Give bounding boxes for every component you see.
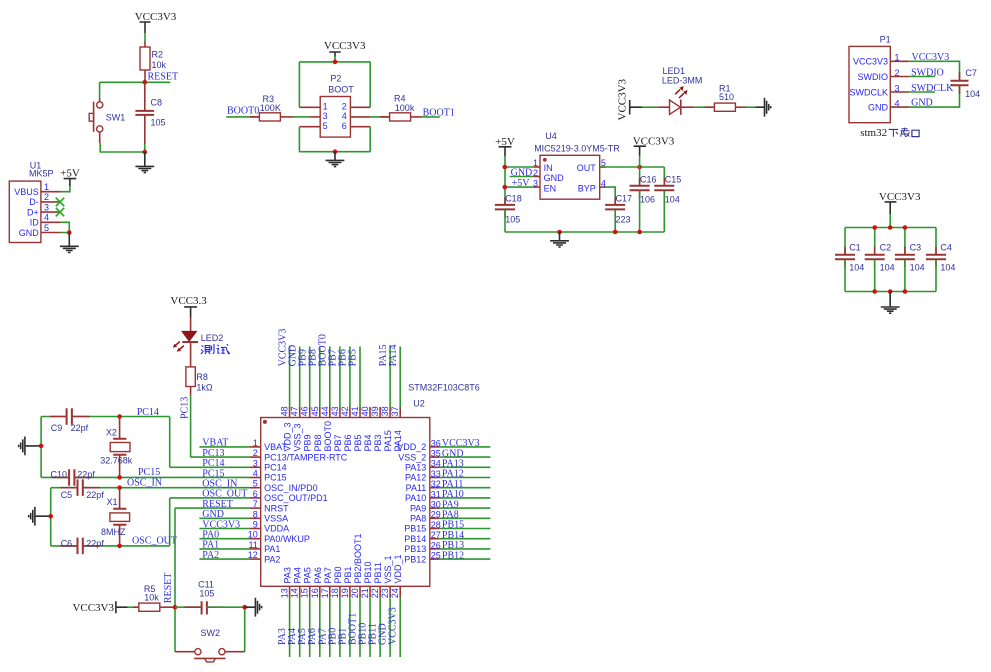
pin 4 ID xyxy=(30,213,61,228)
pin 8 VSSA (left) xyxy=(250,509,288,523)
svg-text:PA14: PA14 xyxy=(393,430,403,451)
svg-text:105: 105 xyxy=(505,214,520,224)
svg-text:LED-3MM: LED-3MM xyxy=(662,75,703,85)
wire PA0 stub xyxy=(199,538,250,540)
wire PB14 stub right xyxy=(440,538,491,540)
capacitor C1 xyxy=(835,243,864,273)
svg-text:106: 106 xyxy=(640,195,655,205)
svg-text:42: 42 xyxy=(340,406,350,416)
svg-text:C8: C8 xyxy=(151,98,163,108)
svg-text:VCC3V3: VCC3V3 xyxy=(616,78,628,120)
wire PA6 stub bottom xyxy=(319,597,321,657)
ground (boot header) xyxy=(326,152,345,167)
svg-text:26: 26 xyxy=(431,540,441,550)
pin 3 D+ xyxy=(27,202,60,217)
wire VCC3V3 stub top xyxy=(289,347,291,408)
wire VCC3V3 to R5 xyxy=(128,606,139,608)
svg-text:VCC3V3: VCC3V3 xyxy=(324,40,366,52)
junction IN xyxy=(503,165,508,170)
junction bottom rail C3 xyxy=(903,289,908,294)
svg-text:1: 1 xyxy=(533,158,538,168)
pin 30 PA9 (right) xyxy=(410,500,441,514)
pin 40 PB4 (top) xyxy=(360,406,373,451)
svg-text:C16: C16 xyxy=(640,175,657,185)
svg-text:9: 9 xyxy=(253,520,258,530)
svg-text:3: 3 xyxy=(533,178,538,188)
svg-text:PB5: PB5 xyxy=(353,434,363,451)
power VCC3V3 (boot header) xyxy=(324,40,366,57)
svg-text:R2: R2 xyxy=(152,50,164,60)
svg-text:PB9: PB9 xyxy=(303,434,313,451)
svg-text:31: 31 xyxy=(431,489,441,499)
header P2 BOOT xyxy=(320,74,354,138)
power VCC3V3 (decoupling bank) xyxy=(879,191,921,214)
svg-text:100K: 100K xyxy=(260,103,281,113)
svg-text:P2: P2 xyxy=(330,74,341,84)
wire GND stub top xyxy=(299,347,301,408)
svg-text:BOOT1: BOOT1 xyxy=(423,108,455,119)
svg-text:C15: C15 xyxy=(665,175,682,185)
svg-text:105: 105 xyxy=(151,118,166,128)
pin 1 VBUS xyxy=(14,182,60,197)
junction P2 bottom xyxy=(333,149,338,154)
pin 36 VDD_2 (right) xyxy=(397,438,441,452)
svg-text:PB14: PB14 xyxy=(404,534,426,544)
crystal X2 32.768k xyxy=(100,417,133,478)
svg-text:5: 5 xyxy=(44,223,49,233)
svg-text:VDDA: VDDA xyxy=(264,524,289,534)
regulator U4 MIC5219-3.0YM5-TR xyxy=(534,131,620,199)
pin 4 PC15 (left) xyxy=(250,469,287,483)
resistor R3 xyxy=(250,94,294,121)
wire VCC3V3 to R2 xyxy=(144,33,146,41)
svg-text:STM32F103C8T6: STM32F103C8T6 xyxy=(408,383,480,393)
wire VCC3V3 to cap bank top rail xyxy=(845,214,936,254)
svg-text:6: 6 xyxy=(253,489,258,499)
wire P1 pin4 to C7 xyxy=(909,85,959,107)
wire P1 pin1 to C7 xyxy=(909,61,959,80)
svg-text:VDD_1: VDD_1 xyxy=(393,554,403,583)
svg-text:1: 1 xyxy=(895,53,900,63)
svg-text:PB3: PB3 xyxy=(373,434,383,451)
wire PB12 stub right xyxy=(440,558,491,560)
pin 26 PB13 (right) xyxy=(404,540,441,554)
svg-text:D-: D- xyxy=(29,197,39,207)
svg-text:39: 39 xyxy=(370,406,380,416)
svg-text:BOOT: BOOT xyxy=(328,85,354,95)
svg-text:3: 3 xyxy=(895,83,900,93)
svg-text:BYP: BYP xyxy=(578,183,596,193)
label test (Chinese) xyxy=(201,344,230,354)
svg-text:C10: C10 xyxy=(51,469,68,479)
wire PB15 stub right xyxy=(440,528,491,530)
svg-text:SW1: SW1 xyxy=(106,113,126,123)
pin 29 PA8 (right) xyxy=(410,510,441,524)
svg-text:VSS_2: VSS_2 xyxy=(398,452,426,462)
svg-text:4: 4 xyxy=(44,213,49,223)
ground (regulator) xyxy=(550,232,569,247)
svg-text:PB6: PB6 xyxy=(343,434,353,451)
pin 33 PA12 (right) xyxy=(405,469,441,483)
junction top rail C3 xyxy=(903,225,908,230)
capacitor C17 xyxy=(605,194,632,232)
svg-text:PB8: PB8 xyxy=(313,434,323,451)
svg-text:X1: X1 xyxy=(107,497,118,507)
svg-text:PB4: PB4 xyxy=(363,434,373,451)
svg-text:RESET: RESET xyxy=(148,72,179,83)
junction X1 bottom xyxy=(117,544,122,549)
junction top rail C2 xyxy=(872,225,877,230)
pin 28 PB15 (right) xyxy=(404,520,441,534)
pin 5 GND xyxy=(19,223,61,238)
capacitor C15 xyxy=(654,175,681,233)
pin 1 xyxy=(299,101,327,111)
wire PA13 stub right xyxy=(440,466,491,468)
junction RESET/R5/C11 xyxy=(173,605,178,610)
wire GND stub xyxy=(199,517,250,519)
capacitor C6 xyxy=(60,538,104,555)
svg-text:35: 35 xyxy=(431,449,441,459)
wire P2 pin4 to R4 xyxy=(370,116,389,118)
pin 21 PB10 (bottom) xyxy=(360,561,373,598)
junction X2 ground tap xyxy=(39,444,44,449)
resistor R1 xyxy=(705,83,746,111)
wire R8 to MCU PC13 xyxy=(191,396,250,457)
pin 4 xyxy=(342,111,370,121)
wire PB5 stub top xyxy=(359,347,361,408)
wire R4 to BOOT1 xyxy=(422,116,440,118)
pin 6 xyxy=(342,121,370,131)
svg-text:4: 4 xyxy=(601,178,606,188)
capacitor C5 xyxy=(60,479,104,500)
wire VCC3V3 stem to OUT rail xyxy=(639,156,641,186)
svg-text:IN: IN xyxy=(544,163,553,173)
svg-text:PB13: PB13 xyxy=(404,544,426,554)
svg-text:SW2: SW2 xyxy=(201,628,221,638)
capacitor C7 xyxy=(951,68,981,99)
svg-text:VCC3V3: VCC3V3 xyxy=(72,602,114,614)
wire RESET to MCU xyxy=(175,507,250,509)
wire PA8 stub right xyxy=(440,517,491,519)
wire PA4 stub bottom xyxy=(299,597,301,657)
svg-text:BOOT0: BOOT0 xyxy=(227,106,259,117)
svg-text:4: 4 xyxy=(253,469,258,479)
svg-text:X2: X2 xyxy=(106,428,117,438)
svg-text:PB15: PB15 xyxy=(404,524,426,534)
svg-text:10k: 10k xyxy=(152,60,167,70)
connector U1 MK5P (USB) xyxy=(9,160,53,242)
svg-text:VCC3V3: VCC3V3 xyxy=(853,57,888,67)
svg-text:41: 41 xyxy=(350,406,360,416)
pin 23 VSS_1 (bottom) xyxy=(380,555,393,598)
svg-text:19: 19 xyxy=(340,588,350,598)
svg-text:5: 5 xyxy=(253,479,258,489)
wire PC15 net (bottom of X2) xyxy=(41,476,250,478)
svg-text:stm32: stm32 xyxy=(860,127,887,139)
svg-text:C3: C3 xyxy=(910,243,922,253)
svg-text:PA9: PA9 xyxy=(410,503,426,513)
svg-text:PA7: PA7 xyxy=(323,567,333,583)
wire GND stub right xyxy=(440,456,491,458)
capacitor C9 xyxy=(50,408,90,433)
wire BOOT0 to R3 xyxy=(226,116,259,118)
svg-text:1: 1 xyxy=(44,182,49,192)
svg-text:38: 38 xyxy=(380,406,390,416)
svg-text:15: 15 xyxy=(300,588,310,598)
svg-text:45: 45 xyxy=(310,406,320,416)
svg-text:104: 104 xyxy=(849,262,864,272)
wire PB1 stub bottom xyxy=(349,597,351,657)
pin 2 SWDIO xyxy=(858,68,910,82)
resistor R5 xyxy=(133,584,175,612)
wire VCC3V3 stub bottom xyxy=(399,597,401,657)
pin 4 GND xyxy=(868,98,909,112)
svg-text:104: 104 xyxy=(665,195,680,205)
junction EN xyxy=(503,185,508,190)
svg-text:44: 44 xyxy=(320,406,330,416)
pin 20 PB2/BOOT1 (bottom) xyxy=(350,533,363,598)
svg-text:100k: 100k xyxy=(395,103,415,113)
junction P2 top xyxy=(333,60,338,65)
pin 6 OSC_OUT/PD1 (left) xyxy=(250,489,328,503)
svg-text:25: 25 xyxy=(431,551,441,561)
svg-text:22pf: 22pf xyxy=(86,490,104,500)
ground (LED1, rotated) xyxy=(755,98,770,117)
wire PA11 stub right xyxy=(440,487,491,489)
pin 25 PB12 (right) xyxy=(404,551,441,565)
pin 14 PA4 (bottom) xyxy=(290,567,303,598)
wire R3 to P2 pin3 xyxy=(294,116,310,118)
svg-text:R4: R4 xyxy=(394,93,406,103)
svg-text:D+: D+ xyxy=(27,207,39,217)
svg-text:47: 47 xyxy=(290,406,300,416)
pin 2 xyxy=(342,101,370,111)
svg-text:2: 2 xyxy=(342,101,347,111)
svg-text:20: 20 xyxy=(350,588,360,598)
svg-text:C7: C7 xyxy=(965,68,977,78)
pin 13 PA3 (bottom) xyxy=(280,567,293,598)
svg-text:+5V: +5V xyxy=(512,178,531,189)
LED LED2 (test LED) xyxy=(173,317,224,352)
pin 46 PB9 (top) xyxy=(300,406,313,451)
svg-text:R8: R8 xyxy=(196,372,208,382)
wire cap bank bottom rail xyxy=(845,260,936,304)
wire PA9 stub right xyxy=(440,507,491,509)
crystal X1 8MHZ xyxy=(101,488,130,546)
svg-text:22pf: 22pf xyxy=(86,539,104,549)
svg-text:GND: GND xyxy=(868,102,889,112)
switch SW1 xyxy=(89,99,125,144)
junction OUT/VCC3V3 xyxy=(637,165,642,170)
wire +5V input rail xyxy=(505,156,534,204)
svg-text:VDD_3: VDD_3 xyxy=(283,422,293,451)
pin 16 PA6 (bottom) xyxy=(310,567,323,598)
svg-text:22pf: 22pf xyxy=(71,423,89,433)
pin 27 PB14 (right) xyxy=(404,530,441,544)
wire P2 pins 5/6 to ground xyxy=(299,127,370,152)
svg-text:29: 29 xyxy=(431,510,441,520)
junction gnd rail C17 xyxy=(613,230,618,235)
svg-text:32: 32 xyxy=(431,479,441,489)
svg-text:PA6: PA6 xyxy=(313,567,323,583)
pin 2 PC13/TAMPER-RTC (left) xyxy=(250,448,348,462)
svg-text:VBUS: VBUS xyxy=(14,187,39,197)
svg-text:PA8: PA8 xyxy=(410,514,426,524)
svg-text:PA0/WKUP: PA0/WKUP xyxy=(264,534,310,544)
junction ground node xyxy=(143,150,148,155)
pin 2 GND xyxy=(533,168,564,183)
resistor R8 xyxy=(186,342,213,396)
power VCC3V3 (regulator output) xyxy=(633,135,675,155)
pin 10 PA0/WKUP (left) xyxy=(248,530,310,544)
svg-text:2: 2 xyxy=(895,68,900,78)
pin 19 PB1 (bottom) xyxy=(340,566,353,598)
power VCC3V3 (reset pull-up) xyxy=(135,11,177,33)
wire PB13 stub right xyxy=(440,548,491,550)
wire ID / GND to ground xyxy=(61,222,70,232)
pin 1 VCC3V3 xyxy=(853,53,909,67)
svg-text:PA2: PA2 xyxy=(264,554,280,564)
pin 3 SWDCLK xyxy=(849,83,909,97)
junction gnd rail (ground tap) xyxy=(557,230,562,235)
pin 9 VDDA (left) xyxy=(250,520,289,534)
svg-text:37: 37 xyxy=(390,406,400,416)
svg-text:C18: C18 xyxy=(505,194,522,204)
svg-text:16: 16 xyxy=(310,588,320,598)
junction bottom rail C2 xyxy=(872,289,877,294)
svg-text:1kΩ: 1kΩ xyxy=(196,383,213,393)
wire PB7 stub top xyxy=(339,347,341,408)
pin 22 PB11 (bottom) xyxy=(370,562,383,598)
svg-text:14: 14 xyxy=(290,588,300,598)
ground (X2 loop, rotated) xyxy=(19,437,41,456)
svg-text:MIC5219-3.0YM5-TR: MIC5219-3.0YM5-TR xyxy=(534,143,620,153)
wire PA15 stub top xyxy=(389,347,391,408)
pin 3 EN xyxy=(533,178,556,193)
pin 24 VDD_1 (bottom) xyxy=(390,554,403,598)
no-connect X on D+ xyxy=(56,208,64,216)
pin 4 BYP xyxy=(578,178,606,193)
wire PC14 net (top of X2) xyxy=(41,417,250,478)
power VCC3.3 (LED2) xyxy=(170,295,207,317)
svg-text:PA5: PA5 xyxy=(303,567,313,583)
svg-text:VSS_3: VSS_3 xyxy=(293,423,303,451)
pin 37 PA14 (top) xyxy=(390,406,403,451)
svg-text:34: 34 xyxy=(431,459,441,469)
junction X1 top xyxy=(117,485,122,490)
pin 1 VBAT (left) xyxy=(250,438,287,452)
capacitor C2 xyxy=(865,243,895,273)
svg-text:PC13: PC13 xyxy=(180,397,191,419)
svg-text:PA4: PA4 xyxy=(293,567,303,583)
junction C11/ground xyxy=(242,605,247,610)
pin 45 PB8 (top) xyxy=(310,406,323,451)
svg-text:RESET: RESET xyxy=(163,573,174,604)
wire PA3 stub bottom xyxy=(289,597,291,657)
wire OSC_OUT net (bottom of X1) xyxy=(51,498,250,546)
wire GND stub bottom xyxy=(389,597,391,657)
svg-text:13: 13 xyxy=(280,588,290,598)
wire PB6 stub top xyxy=(349,347,351,408)
svg-text:1: 1 xyxy=(253,438,258,448)
svg-text:VSSA: VSSA xyxy=(264,514,288,524)
svg-text:NRST: NRST xyxy=(264,503,289,513)
svg-text:VCC3.3: VCC3.3 xyxy=(170,295,207,307)
svg-text:22pf: 22pf xyxy=(77,469,95,479)
svg-text:SWDCLK: SWDCLK xyxy=(849,87,888,97)
svg-text:8MHZ: 8MHZ xyxy=(101,527,126,537)
svg-text:OSC_OUT: OSC_OUT xyxy=(132,536,177,547)
wire BOOT0 stub top xyxy=(329,347,331,408)
wire LED1 to R1 xyxy=(694,106,714,108)
svg-text:510: 510 xyxy=(719,92,734,102)
svg-text:OSC_IN/PD0: OSC_IN/PD0 xyxy=(264,483,318,493)
wire PA14 stub top xyxy=(399,347,401,408)
svg-text:PB1: PB1 xyxy=(343,566,353,583)
svg-text:+5V: +5V xyxy=(60,168,80,180)
pin 3 PC14 (left) xyxy=(250,458,287,472)
ground (reset circuit) xyxy=(135,152,154,173)
svg-text:23: 23 xyxy=(380,588,390,598)
svg-text:C1: C1 xyxy=(849,243,861,253)
IC U2 STM32F103C8T6 xyxy=(261,383,480,587)
pin 18 PB0 (bottom) xyxy=(330,566,343,598)
wire PA10 stub right xyxy=(440,497,491,499)
svg-text:BOOT0: BOOT0 xyxy=(323,421,333,452)
svg-text:PA1: PA1 xyxy=(264,544,280,554)
svg-text:OSC_IN: OSC_IN xyxy=(127,478,162,489)
ground (decoupling bank) xyxy=(881,292,900,314)
svg-text:223: 223 xyxy=(616,214,631,224)
svg-text:21: 21 xyxy=(360,588,370,598)
capacitor C8 xyxy=(135,82,165,144)
wire VBUS to +5V xyxy=(61,186,70,192)
svg-text:C4: C4 xyxy=(940,243,952,253)
svg-text:3: 3 xyxy=(44,202,49,212)
junction X2 top xyxy=(117,414,122,419)
pin 43 PB7 (top) xyxy=(330,406,343,451)
junction X1 ground tap xyxy=(48,514,53,519)
svg-text:SWDIO: SWDIO xyxy=(858,72,889,82)
svg-text:GND: GND xyxy=(19,228,40,238)
svg-text:36: 36 xyxy=(431,438,441,448)
capacitor C11 xyxy=(185,579,225,614)
svg-text:3: 3 xyxy=(253,458,258,468)
resistor R4 xyxy=(380,93,422,121)
svg-text:C5: C5 xyxy=(61,490,73,500)
pin 17 PA7 (bottom) xyxy=(320,567,333,598)
svg-text:3: 3 xyxy=(323,111,328,121)
svg-text:PC13/TAMPER-RTC: PC13/TAMPER-RTC xyxy=(264,452,348,462)
svg-text:C2: C2 xyxy=(880,243,892,253)
pin 42 PB6 (top) xyxy=(340,406,353,451)
pin 48 VDD_3 (top) xyxy=(280,406,293,451)
wire PB9 stub top xyxy=(309,347,311,408)
pin 38 PA15 (top) xyxy=(380,406,393,451)
svg-text:104: 104 xyxy=(940,262,955,272)
svg-text:P1: P1 xyxy=(880,35,891,45)
wire P1 pin3 stub xyxy=(909,91,935,93)
svg-text:PA10: PA10 xyxy=(405,493,426,503)
wire OUT rail xyxy=(600,167,665,185)
label stm32 download port xyxy=(860,127,919,139)
capacitor C10 xyxy=(51,469,96,486)
wire VCC3V3 to LED1 xyxy=(642,106,658,108)
svg-text:43: 43 xyxy=(330,406,340,416)
pin 2 D- xyxy=(29,192,60,207)
svg-text:28: 28 xyxy=(431,520,441,530)
svg-text:24: 24 xyxy=(390,588,400,598)
